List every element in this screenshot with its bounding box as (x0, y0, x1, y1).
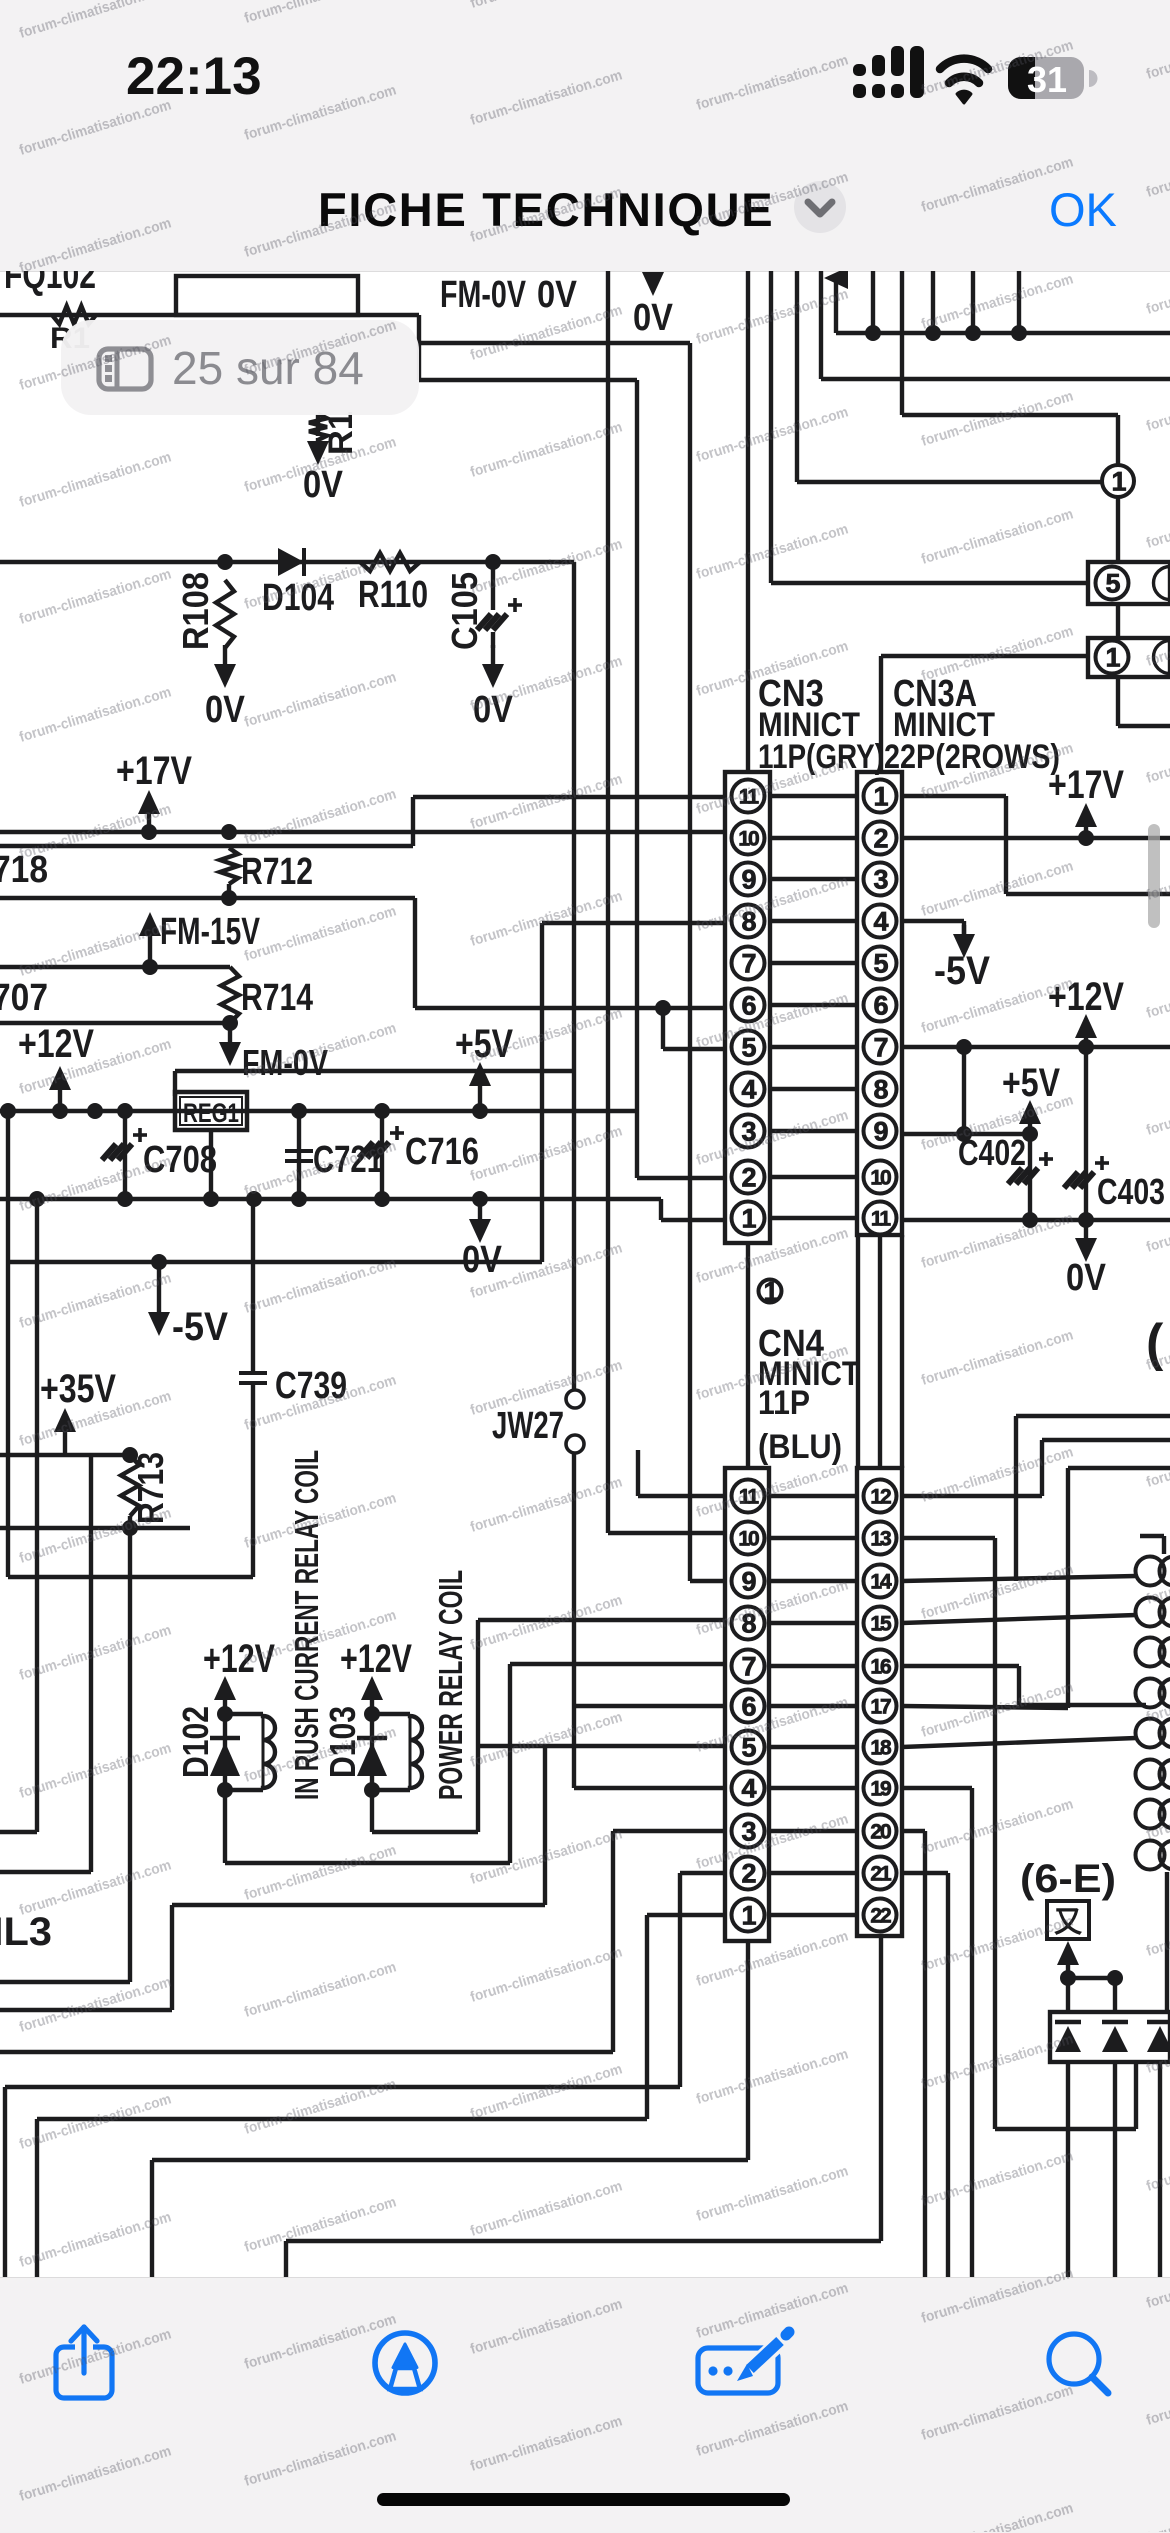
svg-text:1: 1 (873, 781, 888, 811)
connector edge pin (1136, 1800, 1170, 1829)
svg-text:R1: R1 (322, 411, 360, 455)
label 0V (462, 1199, 503, 1281)
markup (marker tip in circle) (375, 2333, 435, 2393)
top chrome background (0, 0, 1170, 272)
wire +5V row (902, 1126, 1038, 1142)
svg-text:22P(2ROWS): 22P(2ROWS) (884, 738, 1060, 776)
wire (770, 919, 857, 923)
wire (1158, 2062, 1162, 2280)
wire (572, 562, 576, 1390)
svg-text:C716: C716 (405, 1131, 479, 1173)
home indicator (377, 2493, 790, 2506)
label MINICT (CN3A) (893, 706, 995, 744)
wire (795, 271, 799, 482)
wire (419, 378, 637, 382)
power +12V arrow (214, 1676, 236, 1712)
wire (769, 1913, 857, 1917)
svg-text:+5V: +5V (455, 1022, 513, 1066)
svg-text:7: 7 (741, 1651, 755, 1681)
wire rail 0V (0, 1197, 661, 1201)
resistor R108 (175, 572, 234, 650)
CN4 pin 2 (732, 1857, 765, 1890)
CN4 pin 12 (864, 1480, 897, 1513)
label FM-0V (440, 274, 526, 316)
power +17V arrow (1075, 803, 1097, 838)
CN3A pin 7 (864, 1031, 897, 1064)
wire (824, 267, 848, 333)
label FM-15V (160, 911, 260, 953)
connector edge body (1140, 1536, 1164, 1554)
power +17V arrow (138, 790, 160, 840)
CN4 pin 22 (864, 1899, 897, 1932)
battery (1008, 57, 1084, 99)
svg-text:(6-E): (6-E) (1020, 1857, 1116, 1901)
wire to pin5 (663, 1008, 725, 1049)
wire (0, 313, 419, 317)
CN4 pin 21 (864, 1857, 897, 1890)
label -5V (934, 925, 990, 993)
CN4 pin 3 (732, 1815, 765, 1848)
svg-text:8: 8 (741, 1608, 756, 1638)
wire row8 (542, 921, 725, 925)
wire (769, 1494, 857, 1498)
label +12V (1048, 975, 1124, 1019)
svg-text:3: 3 (873, 864, 888, 894)
svg-text:11: 11 (739, 785, 760, 808)
svg-text:10: 10 (738, 1527, 759, 1550)
scrollbar (1148, 824, 1160, 928)
svg-text:14: 14 (870, 1570, 892, 1593)
connector CN3 body (725, 772, 770, 1243)
wire (902, 921, 964, 934)
wire to CN4 pin4 (574, 1786, 725, 1790)
svg-text:JW27: JW27 (492, 1405, 564, 1447)
wire bus (690, 343, 725, 1581)
svg-text:IN RUSH CURRENT RELAY COIL: IN RUSH CURRENT RELAY COIL (288, 1450, 325, 1800)
svg-text:C708: C708 (143, 1139, 217, 1181)
svg-text:2: 2 (741, 1162, 755, 1192)
CN3A pin 2 (864, 822, 897, 855)
label +5V (1002, 1061, 1060, 1105)
capacitor C708 (102, 1111, 217, 1199)
label +12V (D103) (340, 1637, 412, 1681)
wire (1113, 1978, 1117, 2012)
diode array box (1050, 2012, 1170, 2062)
wire (769, 1829, 857, 1833)
label (6-E) (1020, 1857, 1116, 1901)
wire (769, 1664, 857, 1668)
CN3A pin 1 (864, 780, 897, 813)
label +5V (455, 1022, 513, 1066)
svg-text:FM-0V: FM-0V (242, 1042, 328, 1083)
svg-text:+12V: +12V (1048, 975, 1124, 1019)
wire (900, 271, 904, 415)
wire (0, 1746, 545, 2010)
CN3A pin 4 (864, 905, 897, 938)
CN4 pin 10 (732, 1522, 765, 1555)
wire (572, 1453, 576, 1788)
wire (203, 1130, 219, 1207)
wire (1066, 1978, 1070, 2012)
wire (5, 1873, 725, 2280)
node (485, 554, 501, 570)
wire (6, 1111, 10, 1199)
svg-text:9: 9 (741, 864, 756, 894)
wire (0, 1980, 130, 1984)
resistor R714 (221, 967, 313, 1023)
svg-text:0V: 0V (303, 464, 344, 506)
resistor R718 (clipped) (0, 849, 48, 891)
wire (902, 1615, 1136, 1623)
label (BLU) (758, 1428, 842, 1466)
CN3A pin 6 (864, 989, 897, 1022)
svg-text:11: 11 (739, 1485, 760, 1508)
wire (0, 1447, 138, 1463)
wire (0, 1015, 238, 1031)
svg-text:8: 8 (741, 906, 756, 936)
svg-text:-5V: -5V (934, 949, 990, 993)
CN4 pin 11 (732, 1480, 765, 1513)
wire to CN4 pin6 (574, 1704, 725, 1708)
wire (770, 794, 857, 798)
node (29, 1191, 488, 1207)
power +12V arrow (1075, 1014, 1097, 1047)
svg-text:+17V: +17V (1048, 763, 1124, 807)
connector edge pin (1136, 1557, 1170, 1586)
CN4 pin 5 (732, 1731, 765, 1764)
svg-text:REG1: REG1 (183, 1098, 239, 1128)
wire (6, 1199, 10, 1577)
nav title (318, 182, 774, 237)
svg-text:22: 22 (870, 1904, 891, 1927)
svg-text:6: 6 (873, 990, 888, 1020)
svg-text:718: 718 (0, 849, 48, 891)
transistor Q102 (label clipped at top) (4, 253, 96, 297)
connector edge (1) (1088, 638, 1170, 677)
label +35V (40, 1367, 116, 1411)
search (1049, 2334, 1099, 2384)
svg-text:+35V: +35V (40, 1367, 116, 1411)
wire (902, 1538, 1136, 2129)
connector CN4 body (725, 1468, 769, 1941)
svg-text:3: 3 (741, 1816, 756, 1846)
power +35V arrow (54, 1408, 76, 1455)
svg-text:(: ( (1146, 1314, 1164, 1372)
wire L1 to CN3 pin11 (0, 797, 725, 846)
svg-text:12: 12 (870, 1485, 891, 1508)
wire (1113, 2062, 1117, 2280)
label 0V (205, 645, 246, 731)
diode (1102, 2022, 1128, 2052)
CN4 pin 1 (732, 1899, 765, 1932)
wire (1116, 497, 1120, 562)
diode D104 (262, 548, 334, 619)
svg-text:+5V: +5V (1002, 1061, 1060, 1105)
svg-text:FQ102: FQ102 (4, 253, 96, 297)
svg-text:8: 8 (873, 1074, 888, 1104)
svg-text:17: 17 (870, 1695, 891, 1718)
label -5V (148, 1262, 228, 1349)
wire (770, 1175, 857, 1179)
CN4 pin 13 (864, 1522, 897, 1555)
svg-text:R108: R108 (175, 572, 216, 650)
label +12V (18, 1022, 94, 1066)
power +5V arrow (469, 1062, 491, 1119)
wire (819, 271, 823, 379)
svg-text:D103: D103 (322, 1706, 363, 1778)
wire (965, 271, 981, 341)
wire (902, 1738, 1136, 1747)
CN3 pin 7 (732, 947, 765, 980)
svg-text:又: 又 (1054, 1906, 1083, 1939)
connector CN3A body (857, 772, 902, 1235)
wire row6 (415, 1000, 725, 1016)
svg-text:+12V: +12V (340, 1637, 412, 1681)
wire (0, 1526, 190, 1530)
label MINICT (CN4) (758, 1355, 860, 1393)
CN3 pin 3 (732, 1115, 765, 1148)
wire (413, 898, 417, 1008)
node (0, 1103, 133, 1119)
wire (769, 1786, 857, 1790)
svg-text:R713: R713 (130, 1452, 171, 1524)
CN3 pin 10 (732, 822, 765, 855)
relay COIL3 (clipped) (0, 1910, 52, 1954)
CN3 pin 9 (732, 863, 765, 896)
wire (881, 654, 1088, 658)
wire (1016, 1416, 1170, 1581)
CN3A pin 5 (864, 947, 897, 980)
wire (769, 1536, 857, 1540)
wire (540, 923, 544, 1262)
label CN3 (758, 673, 824, 715)
svg-text:FM-0V: FM-0V (440, 274, 526, 316)
share icon (56, 2347, 112, 2398)
svg-text:C402: C402 (958, 1132, 1026, 1173)
regulator REG1 (175, 1092, 247, 1130)
wire (770, 836, 857, 840)
label 0V (303, 438, 344, 506)
power +5V arrow (1019, 1100, 1041, 1134)
svg-text:11P: 11P (758, 1384, 810, 1422)
svg-text:0V: 0V (473, 689, 514, 731)
wire (770, 1216, 857, 1220)
wire (0, 896, 415, 900)
wire (771, 581, 1088, 585)
svg-text:19: 19 (870, 1777, 891, 1800)
wire (902, 1468, 1170, 1708)
svg-text:R712: R712 (241, 851, 313, 893)
label 0V with arrow (633, 272, 674, 339)
wire (638, 1450, 725, 1496)
svg-text:-5V: -5V (172, 1305, 228, 1349)
wire (769, 1579, 857, 1583)
svg-text:6: 6 (741, 990, 756, 1020)
CN4 pin 17 (864, 1690, 897, 1723)
terminal 1 (1102, 465, 1134, 497)
terminal 1 (759, 1276, 782, 1306)
wire (878, 1235, 882, 1468)
capacitor C105 (444, 562, 522, 650)
capacitor C707 (clipped) (0, 977, 48, 1019)
wire D102 out (225, 1664, 725, 1863)
svg-text:20: 20 (870, 1820, 891, 1843)
relay coil (power) (372, 1714, 422, 1790)
svg-text:0V: 0V (633, 297, 674, 339)
resistor R712 (220, 824, 313, 906)
svg-text:13: 13 (870, 1527, 891, 1550)
CN3 pin 6 (732, 989, 765, 1022)
connector edge pin (1136, 1598, 1170, 1627)
CN3 pin 5 (732, 1031, 765, 1064)
CN3A pin 8 (864, 1073, 897, 1106)
capacitor C739 (239, 1199, 347, 1577)
CN3A pin 10 (864, 1161, 897, 1194)
svg-text:FM-15V: FM-15V (160, 911, 260, 953)
wire (770, 1087, 857, 1091)
connector edge pin (1136, 1638, 1170, 1667)
svg-text:4: 4 (741, 1074, 756, 1104)
wire (0, 1199, 37, 1832)
svg-text:2: 2 (873, 823, 887, 853)
svg-text:6: 6 (741, 1691, 756, 1721)
svg-text:1: 1 (1111, 466, 1126, 496)
wire (770, 1003, 857, 1007)
svg-text:+17V: +17V (116, 749, 192, 793)
wire (37, 1915, 725, 2280)
wire (902, 1788, 972, 2280)
svg-text:4: 4 (873, 906, 888, 936)
node (1060, 1970, 1123, 1986)
svg-text:IL3: IL3 (0, 1910, 52, 1954)
svg-text:D104: D104 (262, 577, 334, 619)
svg-text:1: 1 (1105, 642, 1120, 672)
node (291, 1103, 390, 1119)
resistor R1 (309, 411, 360, 455)
label +12V (D102) (203, 1637, 275, 1681)
wire +17V row (902, 830, 1170, 846)
wire D103 out (372, 1790, 478, 1832)
wire (856, 1235, 860, 1468)
wire (902, 796, 1170, 894)
svg-text:POWER RELAY COIL: POWER RELAY COIL (432, 1570, 469, 1800)
svg-text:5: 5 (873, 948, 888, 978)
svg-text:18: 18 (870, 1736, 892, 1759)
connector edge pin (1136, 1679, 1170, 1708)
svg-text:C739: C739 (275, 1365, 347, 1407)
svg-text:3: 3 (741, 1116, 756, 1146)
wire (770, 877, 857, 881)
wire (8, 1575, 253, 1579)
CN3A pin 9 (864, 1115, 897, 1148)
terminal (edge) (1146, 1314, 1164, 1372)
node (364, 1706, 380, 1798)
svg-text:0V: 0V (205, 689, 246, 731)
svg-text:C105: C105 (444, 572, 485, 650)
diode D102 (175, 1706, 240, 1790)
wire (769, 271, 773, 583)
wire (0, 1831, 725, 2052)
CN4 pin 14 (864, 1565, 897, 1598)
svg-text:21: 21 (870, 1862, 892, 1885)
svg-text:2: 2 (741, 1858, 755, 1888)
svg-text:D102: D102 (175, 1706, 216, 1778)
label CN4 (758, 1323, 824, 1365)
CN4 pin 19 (864, 1772, 897, 1805)
svg-text:5: 5 (741, 1032, 756, 1062)
wire to pin2 (637, 1176, 725, 1180)
wire (902, 415, 1118, 466)
CN4 pin 20 (864, 1815, 897, 1848)
connector edge pin (1136, 1841, 1170, 1870)
svg-text:707: 707 (0, 977, 48, 1019)
wire (902, 1666, 1146, 1705)
wire (1011, 271, 1027, 341)
annotate box with pencil (698, 2326, 797, 2393)
connector edge (5)(4) (1088, 562, 1170, 604)
svg-text:1: 1 (741, 1203, 756, 1233)
wire arrow (1057, 1941, 1079, 1978)
wire (925, 271, 941, 341)
label +17V (116, 749, 192, 793)
resistor R713 (121, 1452, 171, 1524)
page indicator pill (61, 320, 419, 415)
capacitor C716 (359, 1111, 479, 1199)
wire (746, 271, 750, 772)
wire row8 (478, 1620, 725, 1832)
wire (770, 1045, 857, 1049)
svg-text:0V: 0V (537, 274, 578, 316)
wire (902, 1831, 925, 2280)
wire (769, 1621, 857, 1625)
CN4 pin 6 (732, 1690, 765, 1723)
wire (769, 1704, 857, 1708)
power FM-15V arrow (139, 912, 161, 975)
wire (962, 1047, 966, 1134)
label +17V (1048, 763, 1124, 807)
power +12V arrow (361, 1676, 383, 1712)
capacitor C721 (285, 1111, 383, 1199)
wire (865, 271, 881, 341)
CN4 pin 15 (864, 1607, 897, 1640)
svg-text:(BLU): (BLU) (758, 1428, 842, 1466)
svg-text:1: 1 (741, 1900, 756, 1930)
wire (0, 1455, 91, 1872)
svg-text:R110: R110 (358, 574, 428, 616)
wire (0, 560, 574, 564)
wire (1066, 2062, 1070, 2280)
resistor R110 (358, 553, 428, 616)
wire (286, 1936, 881, 2280)
wire bus (608, 271, 725, 1533)
svg-text:10: 10 (870, 1166, 891, 1189)
svg-text:9: 9 (741, 1566, 756, 1596)
wire (0, 965, 230, 969)
CN3 pin 11 (732, 780, 765, 813)
svg-text:+12V: +12V (203, 1637, 275, 1681)
diode (1055, 2022, 1081, 2052)
wire CN3A feed (879, 656, 883, 772)
wire (175, 1071, 574, 1096)
svg-text:4: 4 (741, 1773, 756, 1803)
CN3 pin 2 (732, 1161, 765, 1194)
label 0V (537, 274, 578, 316)
CN4 pin 8 (732, 1607, 765, 1640)
label 0V (1066, 1220, 1107, 1299)
svg-text:C403: C403 (1097, 1171, 1165, 1212)
status bar time (126, 46, 262, 107)
wire -5V line (8, 1254, 542, 1270)
